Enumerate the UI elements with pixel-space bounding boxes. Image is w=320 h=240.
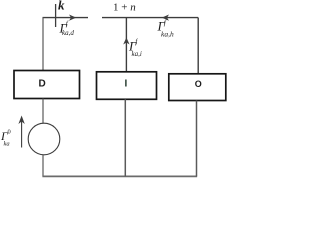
svg-text:O: O xyxy=(195,79,202,89)
svg-text:D: D xyxy=(39,79,46,90)
wire source circle to bottom bus xyxy=(42,155,44,177)
source circle xyxy=(28,123,60,155)
node k time-index tick xyxy=(55,4,57,27)
arrow up on block I input wire xyxy=(123,38,129,45)
block D xyxy=(14,71,80,99)
wire left vertical from top line down to block D xyxy=(42,18,44,71)
wire right vertical down into block O xyxy=(197,18,199,74)
svg-text:I: I xyxy=(125,79,128,90)
svg-text:k: k xyxy=(58,0,65,13)
label gamma 0 ka xyxy=(0,129,11,148)
label gamma f ka,i xyxy=(128,38,142,58)
svg-text:0: 0 xyxy=(8,129,11,136)
arrow left on top-right wire xyxy=(162,15,169,21)
arrow right on top-left wire xyxy=(69,15,76,21)
svg-text:1 + n: 1 + n xyxy=(113,2,136,14)
svg-text:ka,d: ka,d xyxy=(62,29,74,37)
wire top-left feedback segment xyxy=(43,17,89,19)
wire bottom bus xyxy=(42,175,197,177)
arrow up beside source xyxy=(18,116,24,148)
wire top-right segment xyxy=(102,17,198,19)
block O xyxy=(169,74,226,101)
block I xyxy=(97,72,157,100)
svg-text:ka,i: ka,i xyxy=(132,50,142,58)
label gamma f ka,h xyxy=(157,19,174,39)
wire block D to source circle xyxy=(42,99,44,125)
wire vertical down into block I xyxy=(125,18,127,72)
label gamma f ka,d xyxy=(59,20,75,37)
wire block O to bottom bus xyxy=(196,101,198,177)
svg-text:ka,h: ka,h xyxy=(161,30,174,39)
svg-text:ka: ka xyxy=(4,141,10,148)
wire block I to bottom bus xyxy=(124,99,126,176)
